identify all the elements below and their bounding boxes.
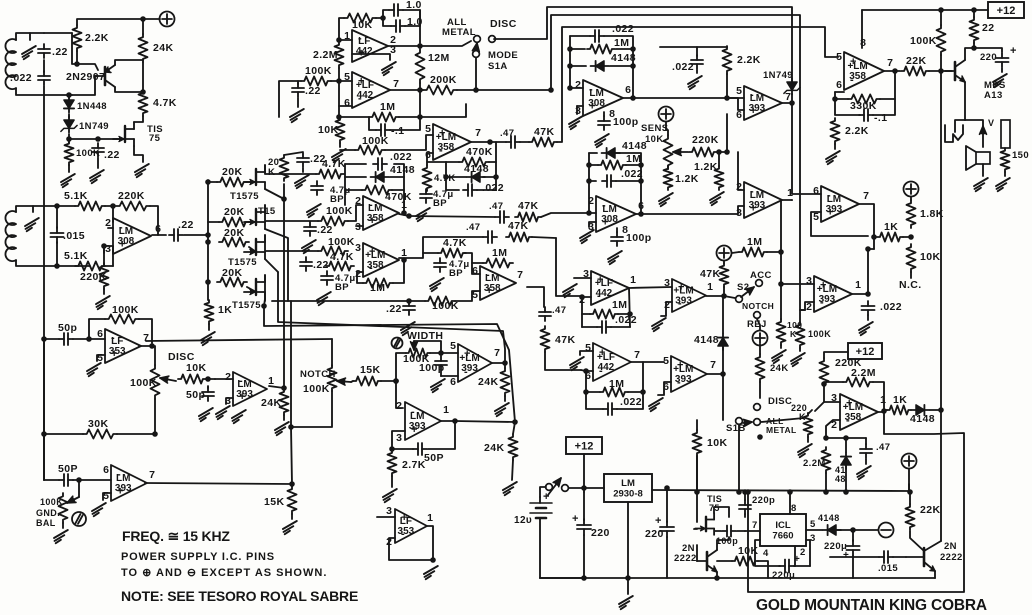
wire caps right [403, 10, 420, 26]
label TIS 75 [147, 124, 163, 135]
wire g1 r2 [616, 48, 633, 50]
junction U15b out [452, 418, 458, 424]
label .22 int [305, 85, 321, 97]
pot wiper disc [160, 376, 176, 383]
label .015 ps [878, 563, 898, 574]
junction U11 out [720, 371, 726, 377]
svg-text:1K: 1K [884, 221, 898, 233]
svg-text:47K: 47K [700, 268, 720, 280]
wire diode chain [68, 114, 70, 118]
resistor 2.7K [388, 450, 397, 476]
svg-text:+: + [111, 348, 117, 360]
label A13 [984, 90, 1003, 101]
wire 20K a to fet1 [247, 181, 256, 183]
pin 3 icl [810, 533, 816, 544]
wire U12 out [878, 411, 884, 413]
svg-text:8: 8 [860, 37, 866, 49]
junction ps rail e [823, 489, 829, 495]
wire to TIS75 gate [98, 138, 120, 140]
svg-text:.022: .022 [672, 61, 694, 73]
svg-text:-: - [597, 290, 601, 302]
wire coil1 top [16, 33, 44, 40]
wire opamp1 out [399, 214, 409, 216]
wire 100K j2 dn [799, 348, 801, 351]
junction g2 c [586, 210, 592, 216]
switch S1A contact a [474, 36, 481, 43]
capacitor 1.0 a [389, 4, 403, 16]
label 220u a [824, 541, 847, 552]
wire s2 link [541, 213, 589, 217]
label + 220u b [794, 554, 800, 565]
ground 1K [201, 332, 215, 345]
resistor 20K d [217, 278, 247, 287]
svg-text:5: 5 [836, 51, 842, 63]
wire fet1 source [265, 189, 284, 199]
wire minus wire [853, 529, 878, 531]
svg-text:+: + [369, 215, 375, 227]
wire U4a out [471, 141, 506, 143]
wire U6a pin6 [727, 98, 744, 110]
switch S2 rej [754, 312, 761, 319]
label 2.7K [402, 459, 426, 471]
svg-text:50p: 50p [58, 322, 77, 334]
wire U4a pin6 [427, 153, 433, 162]
svg-text:100K: 100K [362, 135, 389, 147]
wire 47K h dn [545, 352, 581, 370]
op-amp U1b LF442 [344, 71, 399, 109]
svg-text:2.2K: 2.2K [737, 54, 761, 66]
op-amp U6b LM393 [736, 181, 793, 219]
wire h fb l2 [586, 391, 600, 393]
svg-text:10K: 10K [645, 134, 664, 145]
wire gb wiper [78, 480, 80, 497]
wire icl pin3 [806, 540, 810, 566]
pin 8 icl [791, 503, 797, 514]
wire 220K to gnd [103, 289, 105, 294]
wire g1 r3 [610, 65, 633, 67]
power + s2 [717, 246, 732, 261]
svg-text:2.2M: 2.2M [851, 367, 876, 379]
wire 2.2M to pin5 [338, 68, 340, 81]
svg-text:1K: 1K [893, 394, 907, 406]
wire coil2 bottom [16, 260, 90, 266]
wire .47 k up [865, 438, 867, 444]
svg-text:+12: +12 [575, 440, 594, 452]
svg-text:.022: .022 [612, 23, 634, 35]
wire U1a out [388, 45, 420, 47]
label REJ [747, 319, 767, 330]
junction ps rail f [843, 489, 849, 495]
capacitor .022 u10b [597, 321, 611, 333]
junction f2 l [443, 174, 449, 180]
svg-text:24K: 24K [261, 397, 281, 409]
svg-text:-: - [358, 93, 362, 105]
junction notch dn [288, 424, 294, 430]
wire fb cap left [369, 117, 376, 130]
wire 2.7K dn [391, 476, 393, 487]
wire 220K pot up [808, 410, 812, 414]
label 1.0 b [407, 16, 423, 28]
switch power arm [548, 478, 561, 495]
wire 20K b to fet2 [249, 221, 256, 223]
label 4.7K d1 [322, 158, 346, 170]
wire fb2 [357, 272, 363, 283]
svg-text:5.1K: 5.1K [64, 250, 88, 262]
wire pin5 link [339, 80, 352, 82]
label .47 s1 [500, 128, 514, 139]
junction top rail [140, 16, 146, 22]
svg-text:6: 6 [425, 149, 431, 161]
svg-text:100p: 100p [716, 536, 738, 546]
ground BP2 [317, 292, 331, 305]
label 100K gb [40, 497, 63, 507]
wire 100K j2 up [799, 310, 801, 322]
wire 24K bottom to collector [142, 62, 144, 92]
label 220 ps2 [645, 528, 664, 540]
capacitor .015 [51, 227, 64, 243]
wire 10K to caps [376, 17, 383, 19]
wire 4148 k r [930, 409, 941, 411]
label + ps2 [655, 515, 662, 527]
wire reg out [652, 490, 909, 491]
resistor 1K nc [877, 233, 903, 242]
junction 2.2M top [336, 37, 342, 43]
label .47 s2 [489, 201, 503, 212]
svg-text:47K: 47K [508, 220, 528, 232]
wire notch wiper [351, 381, 353, 382]
junction fb right [417, 114, 423, 120]
resistor 22 [970, 17, 979, 43]
label N.C. [899, 279, 922, 291]
wire 220p up [744, 492, 746, 500]
ground coil1 top [22, 46, 36, 59]
wire 5.1K b link [112, 246, 114, 266]
svg-text:6: 6 [638, 200, 644, 212]
svg-text:470K: 470K [385, 191, 412, 203]
svg-text:.022: .022 [620, 396, 642, 408]
svg-text:+: + [589, 101, 595, 113]
junction 1M s2 r [778, 249, 784, 255]
svg-text:-: - [677, 377, 681, 389]
resistor 100K in2 [318, 247, 348, 256]
svg-text:DISC: DISC [490, 18, 517, 30]
svg-text:.015: .015 [878, 563, 898, 574]
label 4.7K [153, 97, 177, 109]
junction cap .22 src [95, 136, 101, 142]
op-amp U3a LM358 [355, 195, 407, 233]
junction rail 941 [938, 7, 944, 13]
ground 50p disc [199, 408, 213, 421]
svg-text:+: + [411, 424, 417, 436]
label 15K notch [360, 364, 380, 376]
wire f2 r3 [477, 162, 496, 190]
svg-text:MODE: MODE [488, 50, 518, 61]
label .022 g2 [621, 168, 643, 180]
ground U7 [580, 230, 594, 243]
junction coil2 top [54, 203, 60, 209]
wire bus to 20K b [208, 221, 219, 223]
junction mpsa13 col [971, 45, 977, 51]
svg-text:50p: 50p [186, 389, 205, 401]
capacitor .22 coupling [169, 229, 183, 241]
resistor 20K e [280, 155, 289, 181]
label 4.7u3 [449, 259, 470, 270]
junction u10b out [627, 311, 633, 317]
capacitor .022 g1 [590, 30, 604, 42]
label 48 k2 [835, 474, 846, 484]
label 100K in1 [326, 205, 353, 217]
junction pin3 [101, 243, 107, 249]
wire g1 right [604, 36, 633, 98]
wire 47K s4 up [723, 261, 725, 263]
zener 1N749 [61, 116, 77, 132]
svg-text:12M: 12M [428, 52, 450, 64]
svg-text:7: 7 [634, 349, 640, 361]
wire 10K ps2 l [717, 560, 732, 562]
junction bottom a [581, 575, 587, 581]
wire U6a out [782, 102, 792, 104]
junction U14a out [281, 385, 287, 391]
resistor 10K disc [178, 375, 206, 384]
svg-text:2: 2 [396, 400, 402, 412]
wire disc rc r [215, 378, 233, 380]
svg-text:2: 2 [225, 371, 231, 383]
junction U9b out [865, 291, 871, 297]
resistor 10K h [693, 430, 702, 456]
svg-text:METAL: METAL [766, 425, 797, 435]
svg-text:1: 1 [787, 187, 793, 199]
capacitor .47 s2 [495, 211, 509, 223]
wire 2.2K top [77, 19, 160, 25]
svg-text:6: 6 [97, 328, 103, 340]
wire 50P r [73, 479, 111, 481]
svg-text:10K: 10K [707, 437, 727, 449]
svg-text:1: 1 [401, 199, 407, 211]
wire left bus down [43, 95, 45, 480]
svg-text:100K: 100K [305, 65, 332, 77]
resistor 200K [423, 86, 457, 95]
capacitor 4.7u BP1 [311, 181, 323, 195]
ground 100K j [772, 350, 786, 363]
svg-text:22K: 22K [906, 55, 926, 67]
wire g1 l2 [570, 35, 590, 37]
svg-text:5: 5 [663, 355, 669, 367]
wire busA [264, 306, 515, 422]
wire 100K j dn [780, 345, 782, 348]
svg-text:220p: 220p [752, 495, 775, 506]
wire U12 pin2 [826, 420, 840, 438]
label 5.1K a [64, 190, 88, 202]
label 100p ps [716, 536, 738, 546]
jack symbol [945, 125, 963, 142]
ground .22 in1 [302, 240, 316, 253]
resistor 47K s4 [720, 263, 729, 287]
label 100K sum [362, 135, 389, 147]
potentiometer DISC 100K [151, 365, 160, 399]
wire g2 r2 [626, 164, 641, 166]
wire u10b fb l2 [582, 326, 597, 328]
label ALL METAL2 [442, 27, 476, 38]
label BP4 [433, 198, 447, 209]
junction pin6 lf1 [86, 336, 92, 342]
wire fb 1M left [339, 116, 369, 118]
wire jack [955, 120, 965, 132]
switch S2 pole [736, 296, 743, 303]
svg-text:.22: .22 [317, 224, 333, 236]
transistor 2N2222 out arrow [930, 566, 935, 571]
switch power b [562, 485, 569, 492]
wire 10K ps dn [696, 456, 698, 522]
resistor 100K lf1 [105, 315, 139, 324]
wire in3 [464, 253, 480, 274]
label GND. [36, 508, 60, 518]
wire 2n2222 emi [716, 572, 718, 578]
svg-text:2930-8: 2930-8 [613, 489, 643, 500]
label .22 source [104, 149, 120, 161]
wire U1a plus gnd [352, 54, 390, 60]
resistor 1M g1 [587, 45, 615, 54]
resistor 470K f2 [459, 158, 489, 167]
wire cap .022 to bottom [43, 86, 45, 95]
wire f2 l2 [446, 161, 459, 163]
ground U14b [92, 503, 106, 516]
wire fet gate [694, 528, 697, 530]
svg-text:1N749: 1N749 [763, 70, 793, 81]
svg-text:+: + [750, 105, 756, 117]
svg-text:+: + [678, 282, 684, 294]
resistor 1K demod [205, 300, 214, 324]
label 12V [514, 515, 532, 526]
capacitor .022 f1 [373, 158, 387, 170]
wire 24K s2 dn [759, 382, 761, 398]
wire 10K h up [696, 420, 698, 430]
junction g1 c [567, 85, 573, 91]
svg-text:50P: 50P [58, 463, 78, 475]
svg-text:4148: 4148 [694, 334, 719, 346]
op-amp U12 LM358 [831, 392, 886, 431]
op-amp U7 LM308 [588, 195, 644, 236]
wire sens top [666, 122, 668, 135]
wire 50p u15 l [392, 448, 413, 450]
junction g2 r [638, 162, 644, 168]
label 2.2K sens [737, 54, 761, 66]
resistor 5.1K a [75, 202, 105, 211]
wire 220 ps2 up [666, 488, 668, 522]
ground 220K pot [798, 444, 812, 457]
svg-text:220K: 220K [118, 190, 145, 202]
resistor 2.2K [73, 25, 82, 51]
svg-text:4.7K: 4.7K [443, 237, 467, 249]
ground 2.2K aud [826, 151, 840, 164]
wire disc pot dn [154, 399, 156, 434]
diode 4148 g2 [602, 148, 620, 158]
svg-text:24K: 24K [770, 363, 789, 374]
svg-text:.22: .22 [52, 46, 68, 58]
wire f1 lft4 [345, 189, 362, 191]
svg-text:1K: 1K [218, 304, 232, 316]
transistor 2N2222 out [906, 541, 941, 571]
label 1.8K [920, 208, 944, 220]
resistor 10K nc [907, 244, 916, 272]
svg-text:2: 2 [588, 195, 594, 207]
wire U13b out dn [389, 526, 433, 560]
wire g2 l4 [589, 180, 596, 182]
wire U1b out [390, 89, 420, 91]
wire 220K right [150, 206, 158, 235]
junction U4a out [487, 139, 493, 145]
wire 220u a up [852, 530, 854, 541]
label 1M int [380, 101, 395, 113]
wire pin3 down [103, 246, 105, 253]
wire sens pot down [667, 166, 669, 169]
wire coil2 top [16, 206, 75, 212]
transistor 2N2907 [95, 65, 115, 87]
svg-text:3: 3 [355, 221, 361, 233]
wire g1 rail [570, 36, 583, 88]
label .47 h [552, 305, 566, 316]
label NOTCH [300, 369, 336, 380]
wire 330K left [835, 91, 844, 93]
svg-text:6: 6 [836, 79, 842, 91]
wire 24K width dn [504, 396, 506, 401]
svg-text:2: 2 [664, 299, 670, 311]
label MPS [984, 80, 1006, 91]
svg-text:3: 3 [736, 207, 742, 219]
svg-text:5: 5 [103, 490, 109, 502]
wire rail end plus [908, 484, 910, 492]
capacitor 50P gb [59, 474, 73, 486]
wire 1.8K top [910, 197, 912, 200]
svg-text:6: 6 [625, 84, 631, 96]
svg-text:T1575: T1575 [230, 191, 259, 202]
label 2.2M k [851, 367, 876, 379]
svg-text:100K: 100K [328, 236, 355, 248]
label T1575 a [230, 191, 259, 202]
wire U13a out r [146, 339, 332, 341]
diode 4148 f2 [467, 172, 485, 182]
svg-text:+: + [572, 513, 579, 525]
svg-text:-: - [486, 269, 490, 281]
label .015 [63, 230, 85, 242]
label 4148 f1 [390, 164, 415, 176]
wire fet3 drain [265, 235, 318, 251]
svg-text:-: - [599, 365, 603, 377]
wire fb right [399, 116, 420, 118]
svg-text:-: - [369, 199, 373, 211]
wire 10K ps2 r [758, 561, 768, 578]
svg-text:2: 2 [355, 268, 361, 280]
diode 1N4148 [64, 96, 74, 112]
svg-text:+: + [401, 512, 407, 524]
wire U13b pin3 [377, 516, 395, 518]
ground 1.2K a [659, 193, 673, 206]
resistor 1M u10b [590, 310, 618, 319]
wire U6b out bus [780, 200, 782, 319]
ground fet [135, 164, 149, 177]
junction g1 r [630, 46, 636, 52]
wire 50P l [44, 479, 59, 481]
junction g1 r2 [630, 63, 636, 69]
op-amp U9a LM393 [813, 185, 869, 223]
svg-text:SENS: SENS [641, 123, 668, 134]
wire jack side [965, 120, 983, 126]
wire s1 link [520, 141, 529, 143]
resistor 15K gb [288, 486, 297, 514]
wire 2.2M k r [873, 382, 884, 410]
svg-text:7: 7 [494, 347, 500, 359]
wire 100p to pin6 [441, 375, 458, 377]
label 2N out [944, 541, 957, 552]
